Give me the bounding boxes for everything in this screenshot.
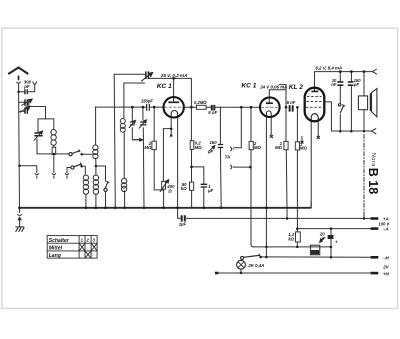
svg-text:+: +: [335, 239, 338, 244]
svg-text:6,2 V, 8,4 mA: 6,2 V, 8,4 mA: [315, 66, 342, 71]
svg-text:MΩ: MΩ: [300, 146, 308, 151]
svg-text:KL 2: KL 2: [289, 84, 304, 91]
svg-text:MΩ: MΩ: [195, 145, 203, 150]
svg-text:kΩ: kΩ: [288, 236, 294, 241]
svg-text:−A: −A: [383, 227, 389, 232]
svg-text:KC 1: KC 1: [157, 83, 172, 90]
svg-text:nF: nF: [331, 82, 337, 87]
svg-text:kΩ: kΩ: [181, 186, 187, 191]
svg-text:25 V, 0,2 mA: 25 V, 0,2 mA: [160, 73, 188, 78]
svg-text:MΩ: MΩ: [144, 145, 152, 150]
svg-text:MΩ: MΩ: [275, 145, 283, 150]
svg-text:pF: pF: [23, 84, 30, 89]
svg-text:+H: +H: [383, 271, 390, 276]
svg-text:MΩ: MΩ: [254, 145, 262, 150]
svg-text:5 nF: 5 nF: [208, 110, 217, 115]
svg-text:24 V 0,06 mA: 24 V 0,06 mA: [259, 84, 287, 89]
svg-text:1µF: 1µF: [179, 221, 187, 226]
svg-text:Schalter: Schalter: [49, 238, 70, 244]
svg-text:pF: pF: [207, 149, 214, 154]
svg-text:2V: 2V: [382, 265, 389, 270]
svg-text:Ω: Ω: [167, 188, 172, 193]
svg-text:−H: −H: [383, 255, 390, 260]
svg-text:5 nF: 5 nF: [287, 100, 296, 105]
svg-text:µF: µF: [207, 188, 214, 193]
svg-text:0,2MΩ: 0,2MΩ: [194, 100, 207, 105]
svg-text:2: 2: [85, 238, 89, 243]
svg-text:B 18: B 18: [366, 168, 380, 194]
svg-text:150: 150: [209, 140, 217, 145]
svg-text:Mittel: Mittel: [49, 245, 63, 251]
svg-text:pF: pF: [353, 82, 360, 87]
svg-text:KC 1: KC 1: [241, 82, 256, 89]
svg-text:Nora: Nora: [370, 153, 376, 167]
svg-text:150pF: 150pF: [141, 99, 154, 104]
svg-text:TA: TA: [225, 154, 231, 159]
svg-text:µF: µF: [319, 236, 326, 241]
svg-text:2K 0,4A: 2K 0,4A: [247, 263, 264, 268]
svg-text:Lang: Lang: [49, 253, 62, 259]
